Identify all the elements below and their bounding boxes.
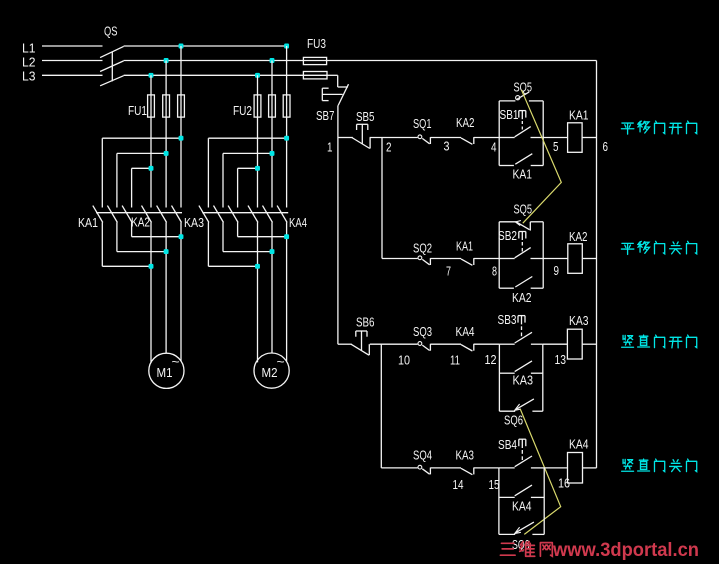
svg-text:KA4: KA4 [512,499,532,514]
limit switch SQ1 contact [418,135,430,144]
node 5 label [553,139,559,154]
fuse FU1 b [163,95,170,117]
relay coil KA1 label [569,108,589,123]
fuse FU2 a [254,95,261,117]
node 12 label [485,352,497,367]
wire FU3 to SB7 [327,75,348,87]
svg-text:SB4: SB4 [498,437,517,452]
SB4 box right edge [543,468,545,535]
node 13 label [555,352,567,367]
wire M2 phase b drop [271,61,273,354]
pushbutton SB2 link dashes [521,242,523,252]
bus wire node2 down [382,138,418,259]
pushbutton SB6 label [356,315,375,330]
svg-text:11: 11 [450,353,460,368]
wire M2 phase a drop [286,46,288,361]
svg-text:KA3: KA3 [184,215,204,230]
pushbutton SB1 label [500,107,519,122]
pushbutton SB7 label [316,108,335,123]
relay contact KA2 row1 [461,137,474,144]
node 14 label [453,477,464,492]
wire coil KA3 to bus [582,343,596,345]
junction L1-M1 [179,44,184,49]
label shuzhimen-guanmen [622,459,697,471]
node 7 label [446,264,451,279]
svg-text:M1: M1 [157,365,173,380]
fuse FU2 c [283,95,290,117]
wire M1 left leg 3 [131,168,133,236]
svg-text:KA1: KA1 [569,108,589,123]
svg-text:5: 5 [553,139,559,154]
SB2 box left edge [498,222,500,288]
svg-text:SQ5: SQ5 [514,202,533,217]
svg-text:L3: L3 [22,69,36,84]
node 15 wire [474,467,499,469]
limit switch SQ6 contact row3 [499,399,542,411]
SB2 box right edge [542,222,544,288]
relay contact KA4 selfhold [499,485,544,497]
relay coil KA3 label [569,313,589,328]
svg-text:KA2: KA2 [512,290,532,305]
wire M2 cross top 3 [238,167,258,169]
svg-text:www.3dportal.cn: www.3dportal.cn [552,540,699,561]
junction M2 bot 1 [284,234,289,239]
limit switch SQ4 contact [418,465,430,474]
switch QS pole 3 blade [100,76,124,86]
wire L2 in [42,60,103,62]
wire M2 left leg 3 [237,168,239,236]
svg-text:M2: M2 [262,365,278,380]
pushbutton SB7 blade [338,84,348,105]
wire node16 [544,467,567,469]
pushbutton SB5 label [356,109,375,124]
svg-text:SQ2: SQ2 [413,241,432,256]
node L2 [22,55,36,70]
wire node5 [543,137,567,139]
motor M2 label [262,354,285,380]
svg-text:2: 2 [386,140,392,155]
junction M2 bot 2 [270,249,275,254]
node L1 [22,41,36,56]
junction M1 top 3 [149,166,154,171]
svg-text:3: 3 [444,139,450,154]
node 15 label [489,477,500,492]
wire L3 out [124,74,327,76]
svg-text:SQ4: SQ4 [413,448,432,463]
relay contact KA3 selfhold label [513,373,534,388]
node 11 label [450,353,460,368]
junction M1 top 2 [164,151,169,156]
wire M2 cross bottom 3 [208,265,257,267]
motor M1 circle [149,353,184,388]
wire L2 out [124,60,327,62]
wire M1 phase c drop [150,75,152,362]
pushbutton SB2 contact [499,248,543,259]
svg-text:KA1: KA1 [513,167,533,182]
junction M2 top 2 [270,151,275,156]
node 9 label [554,263,560,278]
pushbutton SB3 label [498,312,517,327]
relay coil KA1 [568,123,583,153]
node 12 wire [474,343,500,345]
label pingyimen-guanmen [621,241,696,254]
wire M1 cross bottom 1 [132,236,181,238]
svg-text:KA2: KA2 [569,229,588,244]
svg-text:KA2: KA2 [456,115,475,130]
limit switch SQ2 label [413,241,432,256]
node 4 label [491,140,497,155]
svg-text:14: 14 [453,477,464,492]
contact tie M1 [96,212,182,214]
wire node9 [543,258,568,260]
wire left control bus [337,105,339,344]
contactor KA3 label [184,215,204,230]
SB1 box left edge [498,101,500,166]
svg-text:SQ1: SQ1 [413,116,432,131]
relay contact KA2 row1 label [456,115,475,130]
svg-text:SQ6: SQ6 [504,413,523,428]
relay coil KA4 label [569,437,589,452]
node 3 wire [430,137,461,139]
svg-text:4: 4 [491,140,497,155]
wire coil KA2 to bus [582,258,596,260]
relay contact KA4 row3 label [456,324,475,339]
junction L3-M2 [255,73,260,78]
node 1 branch wire [338,137,353,139]
motor M2 circle [254,353,289,388]
node 1 label [327,140,333,155]
limit switch SQ5 label row2 [514,202,533,217]
limit switch SQ5 label row1 [514,80,533,95]
junction L3-M1 [149,73,154,78]
junction M2 bot 3 [255,264,260,269]
SB3 box left edge [498,344,500,411]
wire coil KA1 to bus [582,137,596,139]
watermark sanweiwang [500,542,552,557]
limit switch SQ1 label [413,116,432,131]
wire M1 left leg 2 [116,153,118,251]
relay contact KA2 selfhold [499,277,543,289]
wire M2 left leg 1 [207,138,209,266]
limit switch SQ3 label [413,324,432,339]
fuse FU3 a [303,57,326,64]
contactor KA3/KA4 blades M2 [199,206,287,223]
junction L2-M2 [270,58,275,63]
svg-text:1: 1 [327,140,333,155]
pushbutton SB1 contact [499,127,543,138]
node 10 label [398,353,410,368]
limit switch SQ6 label row3 [504,413,523,428]
relay contact KA1 selfhold label [513,167,533,182]
fuse FU3 label [307,36,326,51]
junction M2 top 1 [284,136,289,141]
pushbutton SB1 link dashes [521,121,523,130]
pushbutton SB4 cap [519,439,526,448]
wire M1 phase a drop [180,46,182,361]
pushbutton SB3 contact [499,332,542,344]
node 8 label [492,264,497,279]
svg-text:6: 6 [603,139,609,154]
switch QS link [111,52,113,81]
limit switch SQ2 contact [418,256,430,265]
label shuzhimen-kaimen [622,335,697,348]
watermark url [552,540,699,561]
wire M2 left leg 2 [222,153,224,251]
wire M1 left leg 1 [101,138,103,266]
wire M1 cross bottom 2 [117,251,166,253]
limit switch SQ6 contact row4 [499,522,544,534]
svg-text:FU3: FU3 [307,36,326,51]
limit switch SQ5 NC contact [499,221,543,231]
fuse FU2 label [233,103,252,118]
junction L2-M1 [164,58,169,63]
wire M2 cross bottom 1 [238,236,287,238]
svg-text:SB3: SB3 [498,312,517,327]
pushbutton SB4 contact [499,456,544,468]
svg-text:FU1: FU1 [128,103,147,118]
wire SB6 to node10 [370,343,418,345]
relay coil KA3 [567,329,582,359]
svg-text:8: 8 [492,264,497,279]
junction L1-M2 [284,44,289,49]
svg-text:L1: L1 [22,41,36,56]
svg-text:SQ3: SQ3 [413,324,432,339]
node 7 wire [430,258,461,260]
svg-text:SB7: SB7 [316,108,335,123]
node 16 label [558,476,570,491]
pushbutton SB1 cap [519,111,526,120]
node 11 wire [430,343,461,345]
wire left bus to SB6 [338,343,352,345]
relay contact KA3 selfhold [499,361,542,373]
limit switch SQ6 label row4 [512,537,530,552]
svg-text:KA1: KA1 [456,239,473,254]
relay contact KA1 row2 [461,258,474,265]
node 8 wire [474,258,499,260]
relay contact KA4 row3 [461,344,474,351]
pushbutton SB6 [351,331,369,355]
relay contact KA2 selfhold label [512,290,532,305]
pushbutton SB3 link dashes [521,326,523,336]
junction M2 top 3 [255,166,260,171]
svg-text:~: ~ [277,354,285,369]
wire M1 cross top 1 [102,137,181,139]
pushbutton SB5 [352,124,370,148]
contact tie M2 [202,212,288,214]
svg-text:15: 15 [489,477,500,492]
svg-text:SB1: SB1 [500,107,519,122]
svg-text:SB5: SB5 [356,109,375,124]
fuse FU1 c [178,95,185,117]
wire M2 cross bottom 2 [223,251,272,253]
svg-text:KA3: KA3 [456,448,475,463]
switch QS label [104,24,118,39]
junction M1 bot 2 [164,249,169,254]
limit switch SQ5 NO contact [499,92,543,101]
contactor KA1/KA2 blades M1 [93,206,182,223]
switch QS pole 2 blade [100,61,124,72]
node L3 [22,69,36,84]
junction M1 top 1 [179,136,184,141]
wire L1 in [42,45,103,47]
wire coil KA4 to bus [583,467,597,469]
svg-text:KA3: KA3 [569,313,589,328]
contactor KA2 label [131,215,150,230]
node 14 wire [430,467,461,469]
svg-text:QS: QS [104,24,118,39]
relay contact KA3 row4 [461,468,474,475]
limit switch SQ4 label [413,448,432,463]
svg-text:9: 9 [554,263,560,278]
relay contact KA3 row4 label [456,448,475,463]
svg-text:KA4: KA4 [456,324,475,339]
wire M2 cross top 2 [223,152,272,154]
pushbutton SB4 label [498,437,517,452]
svg-text:13: 13 [555,352,567,367]
label pingyimen-kaimen [621,121,696,134]
wire M1 cross top 3 [132,167,151,169]
wire M1 cross top 2 [117,152,166,154]
relay coil KA4 [568,453,583,484]
SB4 box left edge [498,468,500,535]
bus wire node10 down [381,344,417,468]
yellow link SQ5 [521,90,561,223]
svg-text:SB6: SB6 [356,315,375,330]
pushbutton SB2 label [498,228,517,243]
limit switch SQ3 contact [418,342,430,351]
node 4 wire [474,137,499,139]
wire node13 [543,343,568,345]
fuse FU3 b [303,72,327,79]
fuse FU2 b [269,95,276,117]
wire SB5 to SQ1 [370,137,418,139]
wire M1 phase b drop [165,61,167,354]
switch QS pole 1 blade [100,46,124,57]
contactor KA4 label [289,215,307,230]
svg-text:KA4: KA4 [289,215,307,230]
relay contact KA4 selfhold label [512,499,532,514]
pushbutton SB3 cap [518,316,525,325]
wire M1 cross bottom 3 [102,265,151,267]
SB1 box right edge [542,101,544,166]
wire M2 cross top 1 [208,137,286,139]
svg-text:~: ~ [172,354,180,369]
fuse FU1 label [128,103,147,118]
motor M1 label [157,354,180,380]
wire L1 out [124,45,287,47]
pushbutton SB2 cap [519,232,526,241]
svg-text:KA2: KA2 [131,215,150,230]
wire top control bus [327,60,597,62]
svg-text:10: 10 [398,353,410,368]
svg-text:SB2: SB2 [498,228,517,243]
fuse FU1 a [148,95,155,117]
node 2 label [386,140,392,155]
relay coil KA2 label [569,229,588,244]
svg-text:FU2: FU2 [233,103,252,118]
junction M1 bot 3 [149,264,154,269]
pushbutton SB4 link dashes [521,450,523,460]
relay contact KA1 row2 label [456,239,473,254]
wire M2 phase c drop [257,75,259,362]
node 6 label [603,139,609,154]
wire L3 in [42,74,103,76]
svg-text:KA4: KA4 [569,437,589,452]
relay contact KA1 selfhold [499,154,543,166]
svg-text:L2: L2 [22,55,36,70]
SB3 box right edge [542,344,544,411]
contactor KA1 label [78,215,98,230]
junction M1 bot 1 [179,234,184,239]
node 3 label [444,139,450,154]
svg-text:12: 12 [485,352,497,367]
pushbutton SB7 cap [322,88,342,100]
svg-text:KA3: KA3 [513,373,534,388]
svg-text:7: 7 [446,264,451,279]
wire right control bus [596,61,598,468]
svg-text:KA1: KA1 [78,215,98,230]
relay coil KA2 [568,244,583,273]
yellow link SQ6 [520,409,560,534]
